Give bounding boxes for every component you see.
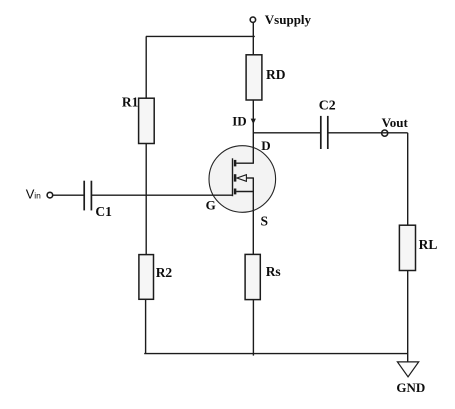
svg-text:Vsupply: Vsupply xyxy=(265,12,312,27)
svg-text:S: S xyxy=(261,214,269,229)
svg-text:RD: RD xyxy=(266,67,286,82)
svg-text:R1: R1 xyxy=(122,95,139,110)
svg-text:R2: R2 xyxy=(156,265,173,280)
svg-text:G: G xyxy=(206,197,216,212)
svg-text:in: in xyxy=(34,191,41,201)
svg-text:C2: C2 xyxy=(319,98,336,113)
svg-text:C1: C1 xyxy=(95,204,112,219)
svg-text:Rs: Rs xyxy=(266,264,281,279)
svg-text:ID: ID xyxy=(232,113,246,128)
svg-text:Vout: Vout xyxy=(382,115,409,130)
svg-text:RL: RL xyxy=(419,237,438,252)
svg-text:D: D xyxy=(261,138,270,153)
svg-text:GND: GND xyxy=(396,380,425,395)
